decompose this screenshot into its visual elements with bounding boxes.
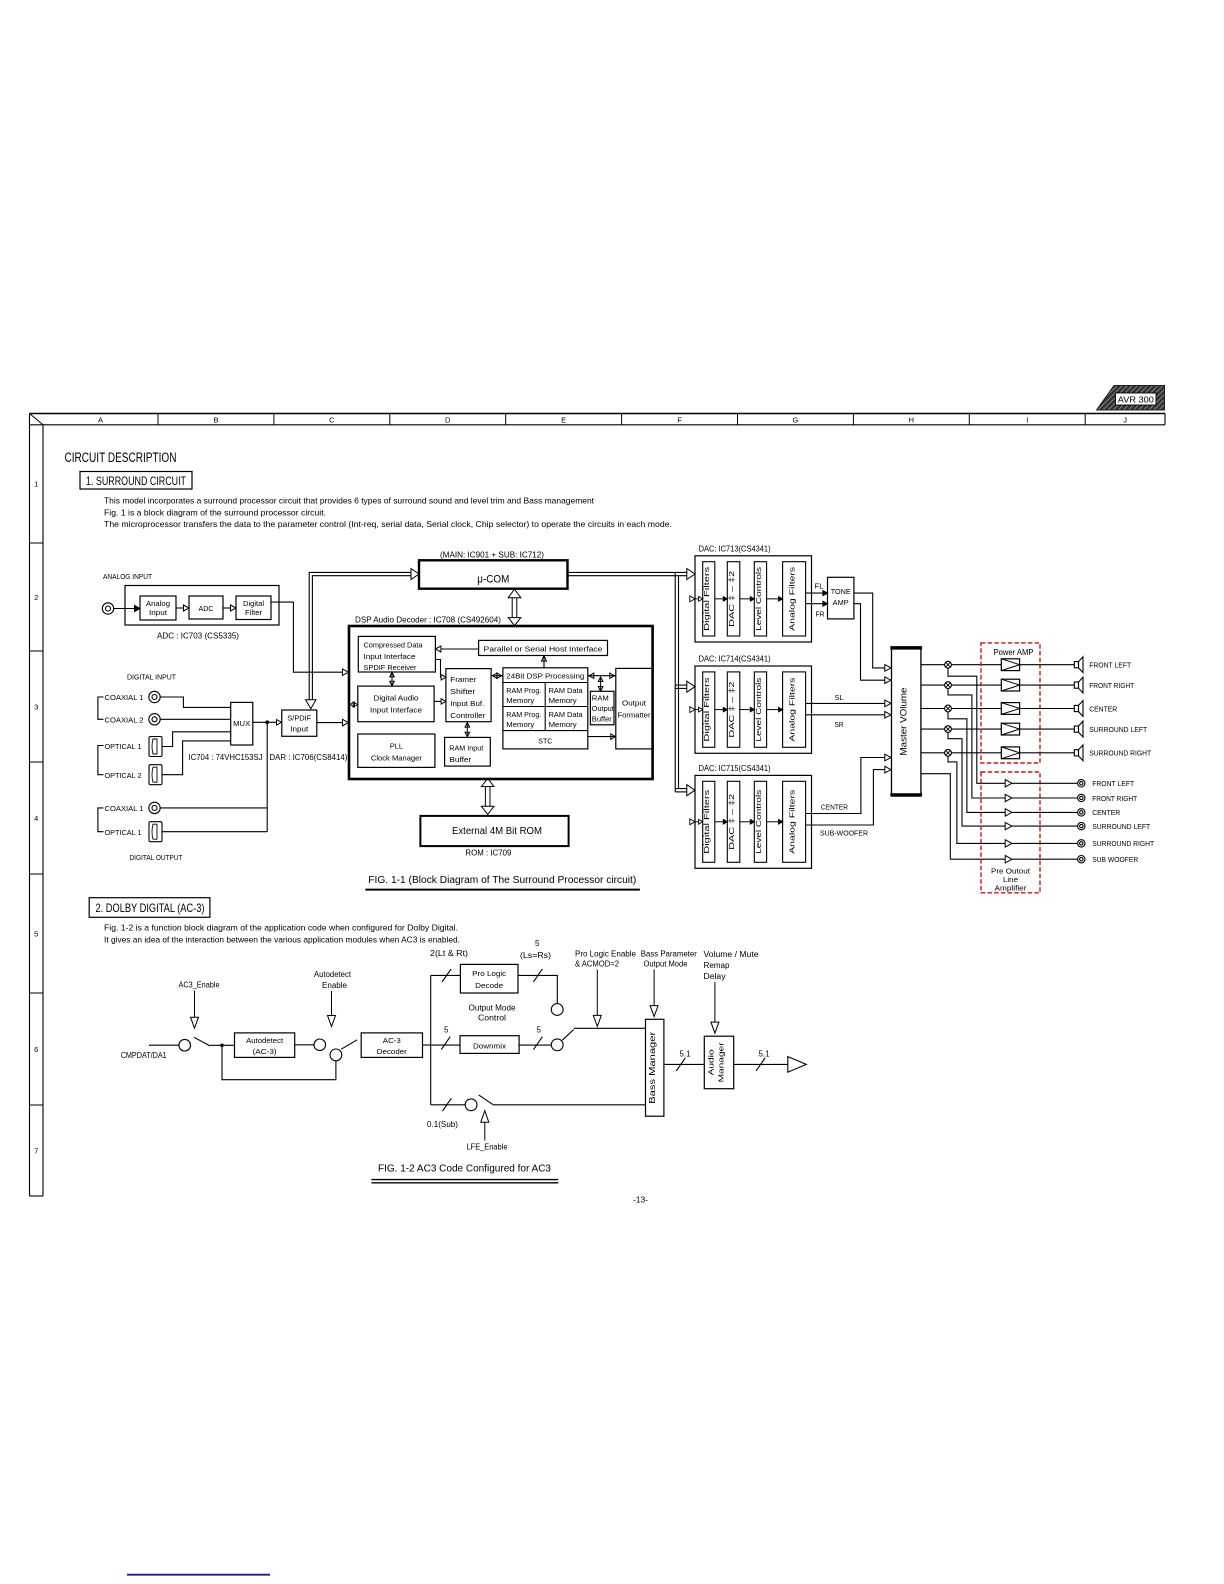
svg-text:DAC: IC713(CS4341): DAC: IC713(CS4341) <box>699 545 771 554</box>
column dividers and letters A-J <box>157 414 159 425</box>
wire node 3 branch to pre-out 3 <box>948 712 1005 813</box>
bus vertical drop to DAC IC714 and IC715 <box>674 572 676 792</box>
wire autodetect to output contact <box>295 1044 314 1046</box>
wire node 2 to power amp <box>951 684 1001 686</box>
junction vertical to pro logic and sub paths <box>430 975 432 1104</box>
svg-text:Amplifier: Amplifier <box>995 884 1028 893</box>
DAC IC715(CS4341) group box <box>695 775 812 868</box>
svg-text:Autodetect: Autodetect <box>314 970 352 979</box>
wire FL from DAC IC713 to tone amp <box>806 592 823 594</box>
svg-text:Bass Parameter: Bass Parameter <box>641 950 697 959</box>
block Output Formatter <box>616 668 652 749</box>
svg-text:DIGITAL INPUT: DIGITAL INPUT <box>127 673 176 682</box>
svg-text:7: 7 <box>34 1146 38 1155</box>
arrows between DAC columns (IC714(CS4341)) <box>715 709 724 711</box>
svg-text:Formatter: Formatter <box>618 711 652 720</box>
svg-text:Compressed Data: Compressed Data <box>364 640 424 649</box>
arrow STC to output formatter <box>588 736 615 738</box>
svg-text:Pro Logic: Pro Logic <box>472 969 506 978</box>
svg-text:COAXIAL 1: COAXIAL 1 <box>105 693 144 702</box>
svg-text:DAR : IC706(CS8414): DAR : IC706(CS8414) <box>269 753 347 762</box>
svg-text:2. DOLBY DIGITAL (AC-3): 2. DOLBY DIGITAL (AC-3) <box>96 901 205 915</box>
bus U-COM right to DAC groups (double line) <box>568 571 687 573</box>
wire master volume output 1 <box>921 664 945 666</box>
wire downmix switch to bass manager <box>574 1027 646 1029</box>
column Level Controls (IC714(CS4341)) <box>754 672 766 747</box>
svg-text:FIG. 1-2 AC3 Code Configured f: FIG. 1-2 AC3 Code Configured for AC3 <box>378 1164 552 1175</box>
svg-text:FRONT LEFT: FRONT LEFT <box>1092 779 1134 788</box>
svg-text:Output Mode: Output Mode <box>644 960 689 969</box>
control arrow AC3_Enable <box>194 991 196 1018</box>
svg-text:OPTICAL 1: OPTICAL 1 <box>105 742 142 751</box>
block MUX IC704 <box>231 702 253 745</box>
svg-text:Memory: Memory <box>549 696 577 705</box>
svg-text:Level Controls: Level Controls <box>754 677 763 741</box>
wire bass manager to audio manager <box>664 1063 704 1065</box>
wire pre-out 6 to jack <box>1012 858 1078 860</box>
svg-text:OPTICAL 1: OPTICAL 1 <box>105 828 142 837</box>
pre-out jack FRONT LEFT <box>1078 780 1085 787</box>
svg-text:2: 2 <box>34 593 38 602</box>
svg-text:ADC : IC703 (CS5335): ADC : IC703 (CS5335) <box>157 632 239 641</box>
svg-text:IC704 : 74VHC153SJ: IC704 : 74VHC153SJ <box>189 753 263 762</box>
svg-text:Digital Filters: Digital Filters <box>702 566 711 630</box>
slash pro logic output <box>533 969 542 982</box>
svg-text:ROM : IC709: ROM : IC709 <box>465 849 512 858</box>
block Compressed Data Input Interface SPDIF Receiver <box>358 636 435 672</box>
column Analog Filters (IC715(CS4341)) <box>783 781 806 862</box>
svg-text:FR: FR <box>816 609 826 618</box>
svg-text:Controller: Controller <box>450 711 486 720</box>
block PLL Clock Manager <box>358 734 435 767</box>
control arrow Volume Mute Remap Delay <box>714 982 716 1022</box>
svg-text:5: 5 <box>444 1026 449 1035</box>
switch lever AC3 enable <box>194 1037 210 1046</box>
svg-text:B: B <box>213 415 218 424</box>
wire S/PDIF to DSP digital audio interface <box>317 722 343 724</box>
volume node 2 <box>945 682 952 689</box>
bidir arrow 24bit DSP to output formatter <box>588 675 616 677</box>
double arrow U-COM to DSP <box>511 598 513 618</box>
wire node 4 branch to pre-out 4 <box>948 733 1005 827</box>
svg-text:Analog: Analog <box>146 599 170 608</box>
pro logic output contact <box>551 1004 563 1016</box>
svg-text:2(Lt & Rt): 2(Lt & Rt) <box>430 949 468 958</box>
bracket digital output pair <box>98 808 104 832</box>
arrows between DAC columns (IC713(CS4341)) <box>715 598 724 600</box>
analog input connector jack <box>102 603 113 614</box>
svg-text:RAM: RAM <box>592 694 609 702</box>
wire SL to master volume <box>806 702 885 704</box>
input arrows into Digital Filters (IC714(CS4341)) <box>690 707 695 713</box>
footer blue rule <box>127 1574 270 1576</box>
wire amp 2 to speaker <box>1020 684 1075 686</box>
svg-text:Level Controls: Level Controls <box>754 566 763 630</box>
column Level Controls (IC713(CS4341)) <box>754 562 766 636</box>
wire SR to master volume <box>806 714 885 716</box>
slash downmix output <box>533 1037 542 1050</box>
svg-text:4: 4 <box>34 814 38 823</box>
pre-out jack SURROUND LEFT <box>1078 822 1085 829</box>
switch contact AC3 enable <box>179 1039 191 1051</box>
block Analog Input <box>140 596 176 620</box>
wire tone amp output 2 to master volume <box>854 604 885 681</box>
svg-text:Fig. 1 is a block diagram of t: Fig. 1 is a block diagram of the surroun… <box>104 507 326 517</box>
wire pre-out 2 to jack <box>1012 797 1078 799</box>
control arrow Pro Logic Enable <box>596 970 598 1016</box>
svg-text:CENTER: CENTER <box>1092 808 1121 817</box>
frame corner diagonal <box>30 414 44 425</box>
wire master volume output 4 <box>921 728 945 730</box>
svg-text:Input Interface: Input Interface <box>370 706 422 715</box>
svg-text:Remap: Remap <box>704 961 731 970</box>
svg-text:E: E <box>561 415 566 424</box>
svg-text:The microprocessor transfers t: The microprocessor transfers the data to… <box>104 519 672 529</box>
wire coaxial output <box>160 807 267 809</box>
wire pre-out 4 to jack <box>1012 825 1078 827</box>
optical output jack <box>149 822 162 842</box>
speaker FRONT LEFT <box>1074 662 1078 668</box>
column Digital Filters (IC715(CS4341)) <box>703 781 715 862</box>
svg-text:24Bit DSP Processing: 24Bit DSP Processing <box>506 672 584 681</box>
wire to pro logic decode <box>431 974 461 976</box>
svg-text:Delay: Delay <box>704 972 726 981</box>
bus U-COM left to S/PDIF input (double line) <box>309 572 411 699</box>
svg-text:AC-3: AC-3 <box>383 1036 401 1045</box>
svg-text:TONE: TONE <box>831 587 851 596</box>
svg-text:Parallel or Serial Host Interf: Parallel or Serial Host Interface <box>484 644 603 653</box>
bypass contact <box>330 1049 342 1061</box>
bidir arrow framer to RAM input buffer <box>466 723 468 736</box>
svg-text:AMP: AMP <box>833 598 849 607</box>
svg-text:& ACMOD=2: & ACMOD=2 <box>575 960 620 969</box>
svg-text:5: 5 <box>535 939 540 948</box>
svg-text:Input Interface: Input Interface <box>364 652 416 661</box>
block S/PDIF Input <box>282 710 317 736</box>
volume node 5 <box>945 749 952 756</box>
block Framer Shifter Input Buf. Controller <box>446 669 491 722</box>
wire node 1 to power amp <box>951 664 1001 666</box>
svg-text:5.1: 5.1 <box>680 1050 692 1059</box>
wire sub switch to bass manager <box>493 1104 646 1106</box>
column Digital Filters (IC713(CS4341)) <box>703 562 715 636</box>
svg-text:MUX: MUX <box>233 719 250 728</box>
svg-text:(MAIN: IC901 + SUB: IC712): (MAIN: IC901 + SUB: IC712) <box>440 551 544 560</box>
svg-text:RAM Data: RAM Data <box>549 686 583 695</box>
block Parallel or Serial Host Interface <box>479 640 608 655</box>
svg-text:Autodetect: Autodetect <box>246 1036 284 1045</box>
svg-text:Bass Manager: Bass Manager <box>648 1031 657 1104</box>
section box 2. DOLBY DIGITAL (AC-3) <box>89 898 210 918</box>
svg-text:J: J <box>1123 415 1127 424</box>
svg-text:Output Mode: Output Mode <box>469 1004 517 1013</box>
control arrow Bass Parameter Output Mode <box>653 970 655 1006</box>
wire amp 4 to speaker <box>1020 728 1075 730</box>
svg-text:Fig. 1-2 is a function block d: Fig. 1-2 is a function block diagram of … <box>104 923 458 933</box>
svg-text:Pro Logic Enable: Pro Logic Enable <box>575 950 637 959</box>
svg-text:0.1(Sub): 0.1(Sub) <box>427 1120 458 1129</box>
bidir arrow down to RAM output buffer <box>600 677 602 690</box>
double arrow DSP to external ROM <box>484 787 486 807</box>
wire node 2 branch to pre-out 2 <box>948 689 1005 799</box>
svg-text:COAXIAL 1: COAXIAL 1 <box>105 804 144 813</box>
svg-text:FIG. 1-1 (Block Diagram of The: FIG. 1-1 (Block Diagram of The Surround … <box>368 875 636 886</box>
wire master volume output 2 <box>921 684 945 686</box>
svg-text:Input: Input <box>149 608 167 617</box>
junction dot <box>220 1044 224 1048</box>
svg-text:FRONT LEFT: FRONT LEFT <box>1089 661 1131 670</box>
wire sub path <box>431 1104 466 1106</box>
svg-text:Downmix: Downmix <box>473 1042 506 1051</box>
svg-text:Input Buf.: Input Buf. <box>450 699 484 708</box>
svg-text:Memory: Memory <box>549 720 577 729</box>
wire optical 1 to MUX <box>162 732 231 747</box>
slash 5-channel decoder output <box>441 1037 450 1050</box>
wire node 3 to power amp <box>951 708 1001 710</box>
svg-text:RAM Data: RAM Data <box>549 710 583 719</box>
svg-text:DAC: IC714(CS4341): DAC: IC714(CS4341) <box>699 655 771 664</box>
svg-text:LFE_Enable: LFE_Enable <box>467 1143 509 1152</box>
arrows between DAC columns (IC715(CS4341)) <box>715 821 724 823</box>
block U-COM microcomputer <box>419 560 568 588</box>
svg-text:5.1: 5.1 <box>759 1050 771 1059</box>
svg-text:SR: SR <box>835 720 845 729</box>
svg-text:-13-: -13- <box>633 1195 648 1205</box>
svg-text:5: 5 <box>537 1026 542 1035</box>
svg-text:H: H <box>909 415 914 424</box>
output amplifier triangle <box>788 1057 807 1073</box>
bidir arrow framer to 24bit DSP <box>491 675 503 677</box>
pre-out jack FRONT RIGHT <box>1078 794 1085 801</box>
wire optical output <box>162 831 267 833</box>
svg-text:DSP Audio Decoder : IC708 (CS4: DSP Audio Decoder : IC708 (CS492604) <box>355 616 501 625</box>
column DAC (IC714(CS4341)) <box>727 672 740 747</box>
svg-text:STC: STC <box>538 737 553 746</box>
bypass wire around autodetect <box>222 1045 336 1079</box>
DAC IC713(CS4341) group box <box>695 556 812 642</box>
svg-text:Enable: Enable <box>322 981 348 990</box>
pre-out line amplifier 2 <box>1005 794 1012 801</box>
svg-text:SURROUND LEFT: SURROUND LEFT <box>1092 822 1150 831</box>
svg-text:G: G <box>793 415 799 424</box>
input arrows into Digital Filters (IC715(CS4341)) <box>690 819 695 825</box>
svg-text:Analog Filters: Analog Filters <box>788 566 797 630</box>
svg-text:CENTER: CENTER <box>1089 704 1118 713</box>
block TONE AMP <box>828 577 854 619</box>
downmix switch contact <box>551 1039 563 1051</box>
block AC-3 Decoder <box>361 1033 422 1058</box>
bus arrow into U-COM left <box>411 569 419 580</box>
svg-text:ADC: ADC <box>199 604 214 613</box>
block ADC <box>189 596 223 619</box>
wire amp 1 to speaker <box>1020 664 1075 666</box>
coaxial output jack <box>149 802 160 813</box>
wire host interface to compressed data block <box>442 648 479 650</box>
svg-text:A: A <box>98 415 103 424</box>
wire master volume subwoofer output to pre-out <box>921 774 1005 860</box>
AVR 300 model tag (hatched parallelogram) <box>1097 386 1165 411</box>
wire amp 5 to speaker <box>1020 752 1075 754</box>
wire Analog Input to ADC <box>176 607 184 609</box>
bus arrow into DAC IC713 <box>687 569 695 580</box>
coaxial 1 input jack <box>149 691 160 702</box>
bus arrow down into S/PDIF Input <box>306 700 316 709</box>
slash output 5.1 <box>756 1058 765 1071</box>
block RAM Output Buffer <box>590 691 614 725</box>
downmix switch lever <box>562 1030 574 1041</box>
svg-text:Control: Control <box>478 1014 506 1023</box>
svg-text:1: 1 <box>34 480 38 489</box>
block Master VOlume <box>892 647 921 796</box>
svg-text:SUB-WOOFER: SUB-WOOFER <box>820 829 869 838</box>
svg-text:Clock Manager: Clock Manager <box>371 754 423 763</box>
column Level Controls (IC715(CS4341)) <box>754 781 766 862</box>
bracket digital input optical pair <box>98 746 104 775</box>
svg-text:Memory: Memory <box>506 696 534 705</box>
svg-text:RAM Prog.: RAM Prog. <box>506 686 541 695</box>
block Downmix <box>460 1036 519 1054</box>
power amplifier 5 <box>1001 747 1019 759</box>
svg-text:CIRCUIT DESCRIPTION: CIRCUIT DESCRIPTION <box>65 450 177 465</box>
power amplifier 3 <box>1001 703 1019 715</box>
wire node 4 to power amp <box>951 728 1001 730</box>
column DAC (IC713(CS4341)) <box>727 562 740 636</box>
column Digital Filters (IC714(CS4341)) <box>703 672 715 747</box>
block 24Bit DSP Processing with RAM memories and STC <box>503 668 588 749</box>
svg-text:(AC-3): (AC-3) <box>253 1047 278 1056</box>
wire downmix output <box>519 1044 551 1046</box>
volume node 1 <box>945 661 952 668</box>
wire CMPDAT input <box>149 1044 179 1046</box>
block Autodetect (AC-3) <box>235 1033 295 1058</box>
coaxial 2 input jack <box>149 714 160 725</box>
sub switch contact <box>465 1099 477 1111</box>
sub switch lever <box>479 1095 493 1105</box>
wire coaxial 2 to MUX <box>160 718 230 720</box>
svg-text:FL: FL <box>815 582 824 591</box>
speaker CENTER <box>1074 705 1078 711</box>
svg-text:FRONT RIGHT: FRONT RIGHT <box>1092 794 1137 803</box>
wire pre-out 5 to jack <box>1012 842 1078 844</box>
section box 1. SURROUND CIRCUIT <box>80 472 192 490</box>
power amplifier 1 <box>1001 659 1019 671</box>
wire audio manager output <box>734 1063 788 1065</box>
svg-text:SUB WOOFER: SUB WOOFER <box>1092 855 1139 864</box>
block External 4M Bit ROM <box>420 816 568 846</box>
svg-text:FRONT RIGHT: FRONT RIGHT <box>1089 681 1134 690</box>
arrow 24bit DSP up to host interface <box>543 657 545 668</box>
slash pro logic input <box>442 969 451 982</box>
wire FR from DAC IC713 to tone amp <box>806 603 823 605</box>
bus branch into DAC IC714 <box>675 684 687 686</box>
svg-text:Power AMP: Power AMP <box>994 648 1034 657</box>
wire CENTER to master volume <box>806 758 885 814</box>
svg-text:AC3_Enable: AC3_Enable <box>179 981 221 990</box>
volume node 3 <box>945 705 952 712</box>
svg-text:Audio: Audio <box>707 1049 716 1075</box>
svg-text:Digital Audio: Digital Audio <box>374 694 419 703</box>
wire tone amp output 1 to master volume <box>854 593 885 668</box>
wire MUX to S/PDIF input <box>253 721 277 723</box>
wire SUB-WOOFER to master volume <box>806 770 885 825</box>
svg-text:Decode: Decode <box>475 981 503 990</box>
slash sub path <box>442 1098 451 1111</box>
svg-text:Framer: Framer <box>450 675 477 684</box>
svg-text:Output: Output <box>622 699 646 708</box>
Pre Outout Line Amplifier dashed group box <box>981 772 1040 893</box>
svg-text:ANALOG INPUT: ANALOG INPUT <box>103 572 152 581</box>
block RAM Input Buffer <box>445 737 491 766</box>
optical 1 input jack <box>149 737 162 757</box>
wire master volume output 5 <box>921 752 945 754</box>
pre-out line amplifier 6 <box>1005 856 1012 863</box>
wire digital filter output to DSP compressed-data input <box>271 602 343 672</box>
svg-text:Buffer: Buffer <box>592 715 613 723</box>
svg-text:OPTICAL 2: OPTICAL 2 <box>105 771 142 780</box>
bus branch into DAC IC715 <box>675 788 687 790</box>
control arrow LFE_Enable <box>481 1111 489 1123</box>
svg-text:Digital: Digital <box>243 599 264 608</box>
row dividers and numbers 1-7 <box>30 542 44 544</box>
svg-text:Memory: Memory <box>506 720 534 729</box>
svg-text:Master VOlume: Master VOlume <box>898 688 908 756</box>
svg-text:Output: Output <box>592 705 614 713</box>
wire compressed data to framer <box>435 660 441 678</box>
column Analog Filters (IC714(CS4341)) <box>783 672 806 747</box>
volume node 4 <box>945 726 952 733</box>
pre-out jack SURROUND RIGHT <box>1078 840 1085 847</box>
pre-out jack CENTER <box>1078 809 1085 816</box>
svg-text:C: C <box>329 415 335 424</box>
frame left band verticals <box>29 414 31 1197</box>
svg-text:RAM Input: RAM Input <box>449 743 483 752</box>
optical 2 input jack <box>149 765 162 785</box>
speaker SURROUND RIGHT <box>1074 750 1078 756</box>
pre-out line amplifier 5 <box>1005 840 1012 847</box>
wire node 5 branch to pre-out 5 <box>948 756 1005 843</box>
speaker SURROUND LEFT <box>1074 726 1078 732</box>
svg-text:DAC: IC715(CS4341): DAC: IC715(CS4341) <box>699 764 771 773</box>
pre-out line amplifier 1 <box>1005 780 1012 787</box>
DSP audio decoder IC708 outer box <box>349 626 653 779</box>
svg-text:COAXIAL 2: COAXIAL 2 <box>105 715 144 724</box>
wire jack to analog input block <box>114 608 134 610</box>
svg-text:SURROUND RIGHT: SURROUND RIGHT <box>1092 839 1154 848</box>
svg-text:Digital Filters: Digital Filters <box>702 789 711 853</box>
svg-text:CENTER: CENTER <box>821 803 849 812</box>
switch lever to AC-3 decoder <box>341 1040 357 1049</box>
wire decoder output <box>423 1044 461 1046</box>
wire junction down to digital outputs <box>266 722 268 831</box>
svg-text:SURROUND RIGHT: SURROUND RIGHT <box>1089 749 1151 758</box>
wire optical 2 to MUX <box>162 741 231 775</box>
ADC IC703 outer box <box>125 586 279 626</box>
input arrows into Digital Filters (IC713(CS4341)) <box>690 596 695 602</box>
svg-text:Digital Filters: Digital Filters <box>702 677 711 741</box>
svg-text:1. SURROUND CIRCUIT: 1. SURROUND CIRCUIT <box>86 474 186 488</box>
svg-text:SURROUND LEFT: SURROUND LEFT <box>1089 725 1147 734</box>
svg-text:Level Controls: Level Controls <box>754 789 763 853</box>
wire coaxial 1 to MUX <box>160 697 230 707</box>
column Analog Filters (IC713(CS4341)) <box>783 562 806 636</box>
wire pre-out 3 to jack <box>1012 811 1078 813</box>
column DAC (IC715(CS4341)) <box>727 781 740 862</box>
drawing border frame - top header band <box>30 413 1166 415</box>
wire digital audio to framer <box>434 700 441 702</box>
pre-out line amplifier 4 <box>1005 822 1012 829</box>
wire ADC to Digital Filter <box>223 607 231 609</box>
svg-text:Decoder: Decoder <box>377 1047 407 1056</box>
